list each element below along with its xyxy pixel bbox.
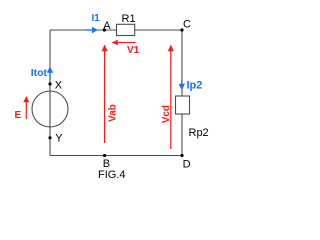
wire right vertical segment Rp2 to D	[181, 114, 183, 156]
node C	[180, 28, 183, 31]
wire bottom horizontal segment	[50, 155, 182, 157]
voltage arrow Vab	[104, 50, 106, 143]
svg-text:Vab: Vab	[107, 104, 118, 122]
svg-text:V1: V1	[127, 45, 140, 56]
wire top-left horizontal A segment	[50, 29, 117, 31]
wire top-right horizontal segment R1 to C	[135, 29, 182, 31]
svg-text:FIG.4: FIG.4	[98, 169, 126, 181]
voltage arrow V1	[117, 42, 136, 44]
node X	[48, 82, 51, 85]
svg-text:E: E	[15, 110, 22, 121]
svg-text:Y: Y	[55, 132, 63, 144]
svg-text:I1: I1	[92, 13, 101, 24]
svg-text:C: C	[183, 19, 191, 31]
node B	[103, 154, 106, 157]
current arrow I1	[86, 29, 93, 31]
source E circle	[32, 91, 68, 127]
svg-text:Ip2: Ip2	[187, 79, 203, 91]
current arrow Itot	[49, 73, 51, 80]
voltage arrow Vcd	[170, 50, 172, 149]
svg-text:D: D	[183, 158, 191, 170]
svg-text:Vcd: Vcd	[161, 105, 172, 123]
svg-text:A: A	[103, 20, 111, 32]
node Y	[48, 136, 51, 139]
svg-text:Rp2: Rp2	[189, 127, 209, 139]
current arrow Ip2	[181, 80, 183, 84]
wire left vertical segment	[49, 30, 51, 156]
emf arrow E	[25, 102, 27, 120]
node A	[103, 28, 106, 31]
wire right vertical segment C to Rp2	[181, 30, 183, 96]
resistor Rp2	[176, 96, 190, 114]
node D	[180, 154, 183, 157]
svg-text:Itot: Itot	[31, 67, 48, 79]
svg-text:R1: R1	[122, 13, 136, 25]
svg-text:X: X	[55, 80, 63, 92]
resistor R1	[117, 24, 135, 35]
